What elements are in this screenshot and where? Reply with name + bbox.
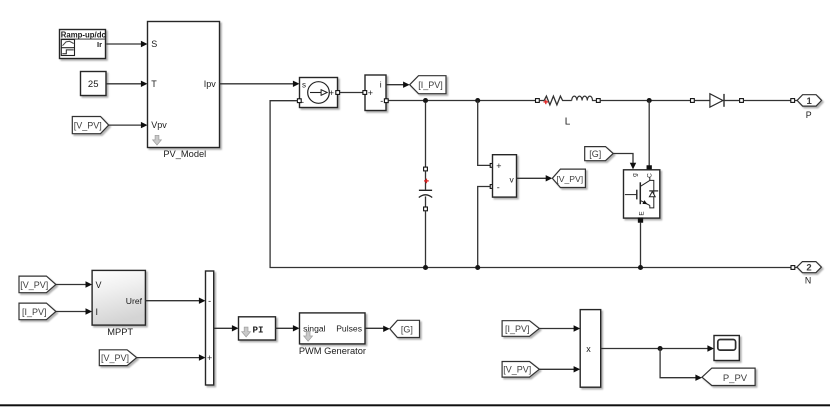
wire Ipv to current source s (220, 81, 300, 87)
From tag V_PV (to Vpv) (72, 117, 108, 134)
wire G to IGBT gate (613, 154, 636, 170)
wire collector to top rail (647, 101, 651, 171)
Goto tag I_PV (410, 76, 446, 94)
wire I_PV to MPPT I (56, 308, 92, 314)
svg-text:V: V (96, 280, 102, 290)
wire Uref to sum - (145, 298, 205, 304)
svg-text:C: C (646, 173, 653, 178)
svg-text:+: + (329, 88, 334, 98)
svg-text:+: + (207, 353, 212, 363)
wire Ir to S (106, 41, 147, 47)
node junction capacitor top (423, 98, 428, 103)
port 1 P (797, 95, 822, 120)
svg-text:[V_PV]: [V_PV] (74, 120, 102, 130)
diode D (691, 94, 744, 108)
IGBT block (624, 170, 660, 222)
svg-text:[V_PV]: [V_PV] (20, 280, 48, 290)
sum block (vertical bar +/-) (206, 271, 214, 385)
svg-text:s: s (302, 81, 306, 90)
node junction power signal (658, 346, 663, 351)
constant block 25 (81, 72, 107, 96)
svg-text:Ipv: Ipv (204, 79, 217, 89)
wire emitter to N rail (640, 222, 642, 265)
wire current source + to current measurement + (340, 92, 363, 94)
subsystem PWM Generator (299, 313, 366, 356)
node junction IGBT collector (647, 98, 652, 103)
svg-text:S: S (151, 39, 157, 49)
svg-text:Pulses: Pulses (336, 324, 362, 334)
From tag I_PV (product input) (502, 321, 539, 337)
svg-text:PV_Model: PV_Model (163, 149, 206, 159)
svg-text:25: 25 (88, 79, 99, 90)
Goto tag G (390, 320, 420, 337)
wire RL to collector node (600, 100, 690, 102)
wire V_PV to MPPT V (56, 281, 92, 287)
wire sum to PI (214, 325, 239, 331)
svg-text:Ramp-up/dc: Ramp-up/dc (61, 31, 107, 40)
wire product to scope (601, 345, 714, 351)
svg-text:Ir: Ir (97, 40, 102, 49)
svg-text:PWM Generator: PWM Generator (299, 346, 366, 356)
scope block (714, 336, 739, 361)
svg-text:-: - (208, 296, 211, 306)
wire V_PV to sum + (137, 354, 206, 360)
svg-text:MPPT: MPPT (107, 327, 133, 337)
wire i to Goto I_PV (386, 82, 410, 88)
voltage measurement block Vpv (493, 155, 517, 197)
svg-text:P: P (806, 110, 812, 120)
Goto tag V_PV (measured) (552, 169, 585, 187)
PI controller block (239, 317, 276, 340)
svg-text:[V_PV]: [V_PV] (503, 365, 531, 375)
From tag I_PV (MPPT I input) (19, 303, 56, 320)
svg-text:i: i (380, 80, 382, 90)
wire 25 to T (106, 81, 148, 87)
svg-text:[V_PV]: [V_PV] (101, 353, 129, 363)
svg-text:+: + (496, 161, 501, 171)
svg-text:[G]: [G] (589, 149, 601, 159)
svg-text:2: 2 (806, 263, 811, 274)
svg-text:P_PV: P_PV (723, 373, 748, 384)
wire voltage measurement - to N rail (478, 185, 494, 266)
capacitor C (with red polarity mark) (419, 103, 432, 266)
svg-text:[I_PV]: [I_PV] (505, 324, 530, 334)
svg-text:-: - (497, 182, 500, 192)
wire Pulses to Goto G (365, 326, 390, 332)
svg-text:g: g (632, 173, 639, 177)
svg-text:-: - (380, 96, 383, 106)
wire PI to PWM Generator (276, 325, 300, 331)
svg-text:T: T (151, 79, 157, 89)
wire junction to Goto P_PV (660, 349, 702, 381)
svg-text:1: 1 (807, 96, 813, 107)
node junction voltage measurement bottom (475, 265, 480, 270)
subsystem PV_Model (148, 22, 220, 160)
svg-text:[V_PV]: [V_PV] (556, 174, 583, 184)
From tag V_PV (product input) (502, 362, 539, 378)
product block x (580, 310, 601, 388)
svg-text:PI: PI (253, 324, 264, 335)
From tag V_PV (sum + input) (99, 350, 136, 366)
subsystem MPPT (92, 270, 145, 337)
node junction IGBT emitter bottom (638, 265, 643, 270)
svg-text:I: I (96, 307, 99, 317)
wire V_PV to Vpv (109, 122, 148, 128)
controlled current source U_I (297, 78, 339, 108)
svg-text:+: + (368, 88, 373, 98)
svg-text:[I_PV]: [I_PV] (22, 307, 47, 317)
current measurement block (363, 75, 388, 111)
wire top rail (current measurement - to RL) (388, 100, 535, 102)
wire current source negative to N rail (270, 101, 791, 268)
From tag V_PV (MPPT V input) (19, 276, 56, 293)
svg-text:[G]: [G] (401, 324, 413, 334)
node junction voltage measurement top (475, 98, 480, 103)
svg-text:[I_PV]: [I_PV] (418, 80, 443, 90)
series RL branch L (536, 96, 601, 127)
wire I_PV to product (539, 325, 580, 331)
wire diode to port P (743, 99, 797, 103)
svg-text:E: E (639, 211, 646, 216)
node junction capacitor bottom (423, 265, 428, 270)
wire top rail to voltage measurement + (478, 101, 494, 168)
svg-text:Uref: Uref (126, 296, 143, 306)
Goto tag P_PV (702, 368, 755, 385)
wire v to Goto V_PV (517, 175, 553, 181)
svg-text:x: x (586, 344, 591, 354)
port 2 N (797, 262, 822, 286)
svg-text:Vpv: Vpv (151, 120, 167, 130)
From tag G (585, 147, 614, 161)
svg-text:N: N (805, 276, 811, 286)
figure bottom border line (0, 404, 830, 406)
signal builder block Ramp-up/dc (Ir) (60, 30, 107, 59)
svg-text:L: L (565, 117, 571, 128)
port square before port N (791, 266, 797, 270)
svg-text:v: v (510, 175, 515, 185)
wire V_PV to product (539, 366, 580, 372)
